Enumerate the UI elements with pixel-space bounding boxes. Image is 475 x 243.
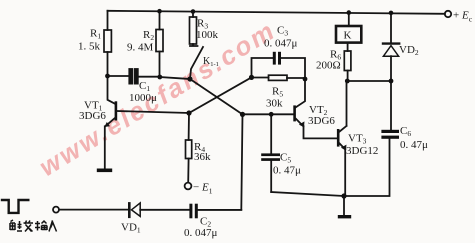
char shu	[35, 221, 47, 231]
transistor VT3	[337, 81, 347, 196]
svg-text:100k: 100k	[196, 29, 219, 41]
wire bottom line	[271, 139, 389, 196]
svg-text:C5: C5	[280, 152, 291, 165]
ground (VT1 emitter)	[97, 169, 112, 173]
diode VD1	[129, 203, 189, 217]
resistor R4	[186, 113, 192, 183]
node C to RC block	[252, 52, 306, 81]
capacitor C6	[381, 81, 399, 139]
terminal +Ec	[445, 11, 451, 17]
wire cross-couple A-D	[190, 79, 243, 114]
label trigger input (Chinese 触发输入)	[10, 220, 57, 232]
svg-text:R2: R2	[143, 29, 154, 42]
node VD2/C6	[389, 79, 394, 84]
svg-text:9. 4M: 9. 4M	[127, 42, 154, 54]
svg-text:VD1: VD1	[121, 222, 141, 235]
wire top rail	[108, 11, 445, 14]
char fa	[24, 221, 34, 232]
svg-text:200Ω: 200Ω	[316, 60, 341, 72]
wire cross-couple B-C	[189, 77, 252, 113]
resistor R3	[190, 12, 198, 47]
resistor R5	[252, 77, 306, 80]
watermark	[34, 15, 281, 183]
terminal trigger input	[53, 207, 59, 213]
svg-text:VD2: VD2	[399, 44, 419, 57]
capacitor C3	[252, 58, 306, 79]
resistor R2	[156, 11, 163, 77]
svg-text:1. 5k: 1. 5k	[78, 41, 101, 53]
ground (bottom)	[338, 196, 351, 218]
svg-text:0. 47μ: 0. 47μ	[273, 165, 301, 177]
node R2/C1	[157, 75, 162, 80]
switch K1-1	[190, 47, 203, 79]
node R1/C1	[105, 74, 110, 79]
node B	[186, 110, 191, 115]
capacitor C5	[261, 114, 280, 192]
svg-text:0. 047μ: 0. 047μ	[184, 227, 218, 239]
svg-text:0. 47μ: 0. 47μ	[400, 139, 428, 151]
svg-text:3DG6: 3DG6	[79, 110, 106, 122]
node top R3	[191, 9, 196, 14]
wire node160 to A	[160, 77, 190, 79]
char ru	[49, 221, 57, 232]
wire D down to C2	[198, 114, 243, 209]
node R5/VT2c	[303, 77, 308, 82]
node top VD2	[389, 11, 394, 16]
svg-text:30k: 30k	[266, 98, 283, 110]
node C	[249, 75, 254, 80]
capacitor C2	[189, 204, 241, 219]
wire trigger to VD1	[59, 209, 129, 211]
node A	[187, 76, 192, 81]
svg-text:www.elecfans.com: www.elecfans.com	[34, 15, 281, 183]
resistor R6	[344, 43, 351, 81]
svg-text:K: K	[344, 30, 352, 42]
resistor R1	[104, 11, 111, 76]
svg-text:C3: C3	[277, 25, 288, 38]
wire base line D-E-VT2	[243, 113, 294, 115]
svg-text:0. 047μ: 0. 047μ	[264, 38, 298, 50]
wire R6 row	[347, 80, 391, 82]
terminal -E1	[185, 183, 192, 190]
svg-text:3DG12: 3DG12	[346, 145, 378, 157]
svg-text:36k: 36k	[194, 151, 211, 163]
diode VD2	[383, 13, 399, 81]
svg-text:C6: C6	[400, 125, 411, 138]
svg-text:+ Ec: + Ec	[453, 10, 473, 24]
svg-text:VT3: VT3	[348, 133, 367, 146]
char chu	[10, 220, 22, 231]
svg-text:− E1: − E1	[193, 182, 213, 196]
relay K	[336, 13, 361, 43]
node E	[269, 112, 274, 117]
svg-text:3DG6: 3DG6	[308, 115, 335, 127]
node bottom gnd	[341, 193, 346, 198]
node top K	[347, 10, 352, 15]
node R6/VT3c	[345, 79, 350, 84]
capacitor C1	[108, 69, 161, 84]
node top R2	[157, 9, 162, 14]
svg-text:1000μ: 1000μ	[129, 92, 157, 104]
transistor VT1	[105, 76, 189, 169]
transistor VT2	[293, 79, 337, 138]
svg-text:R1: R1	[90, 28, 101, 41]
node D	[240, 112, 245, 117]
pulse symbol (trigger)	[2, 200, 28, 213]
